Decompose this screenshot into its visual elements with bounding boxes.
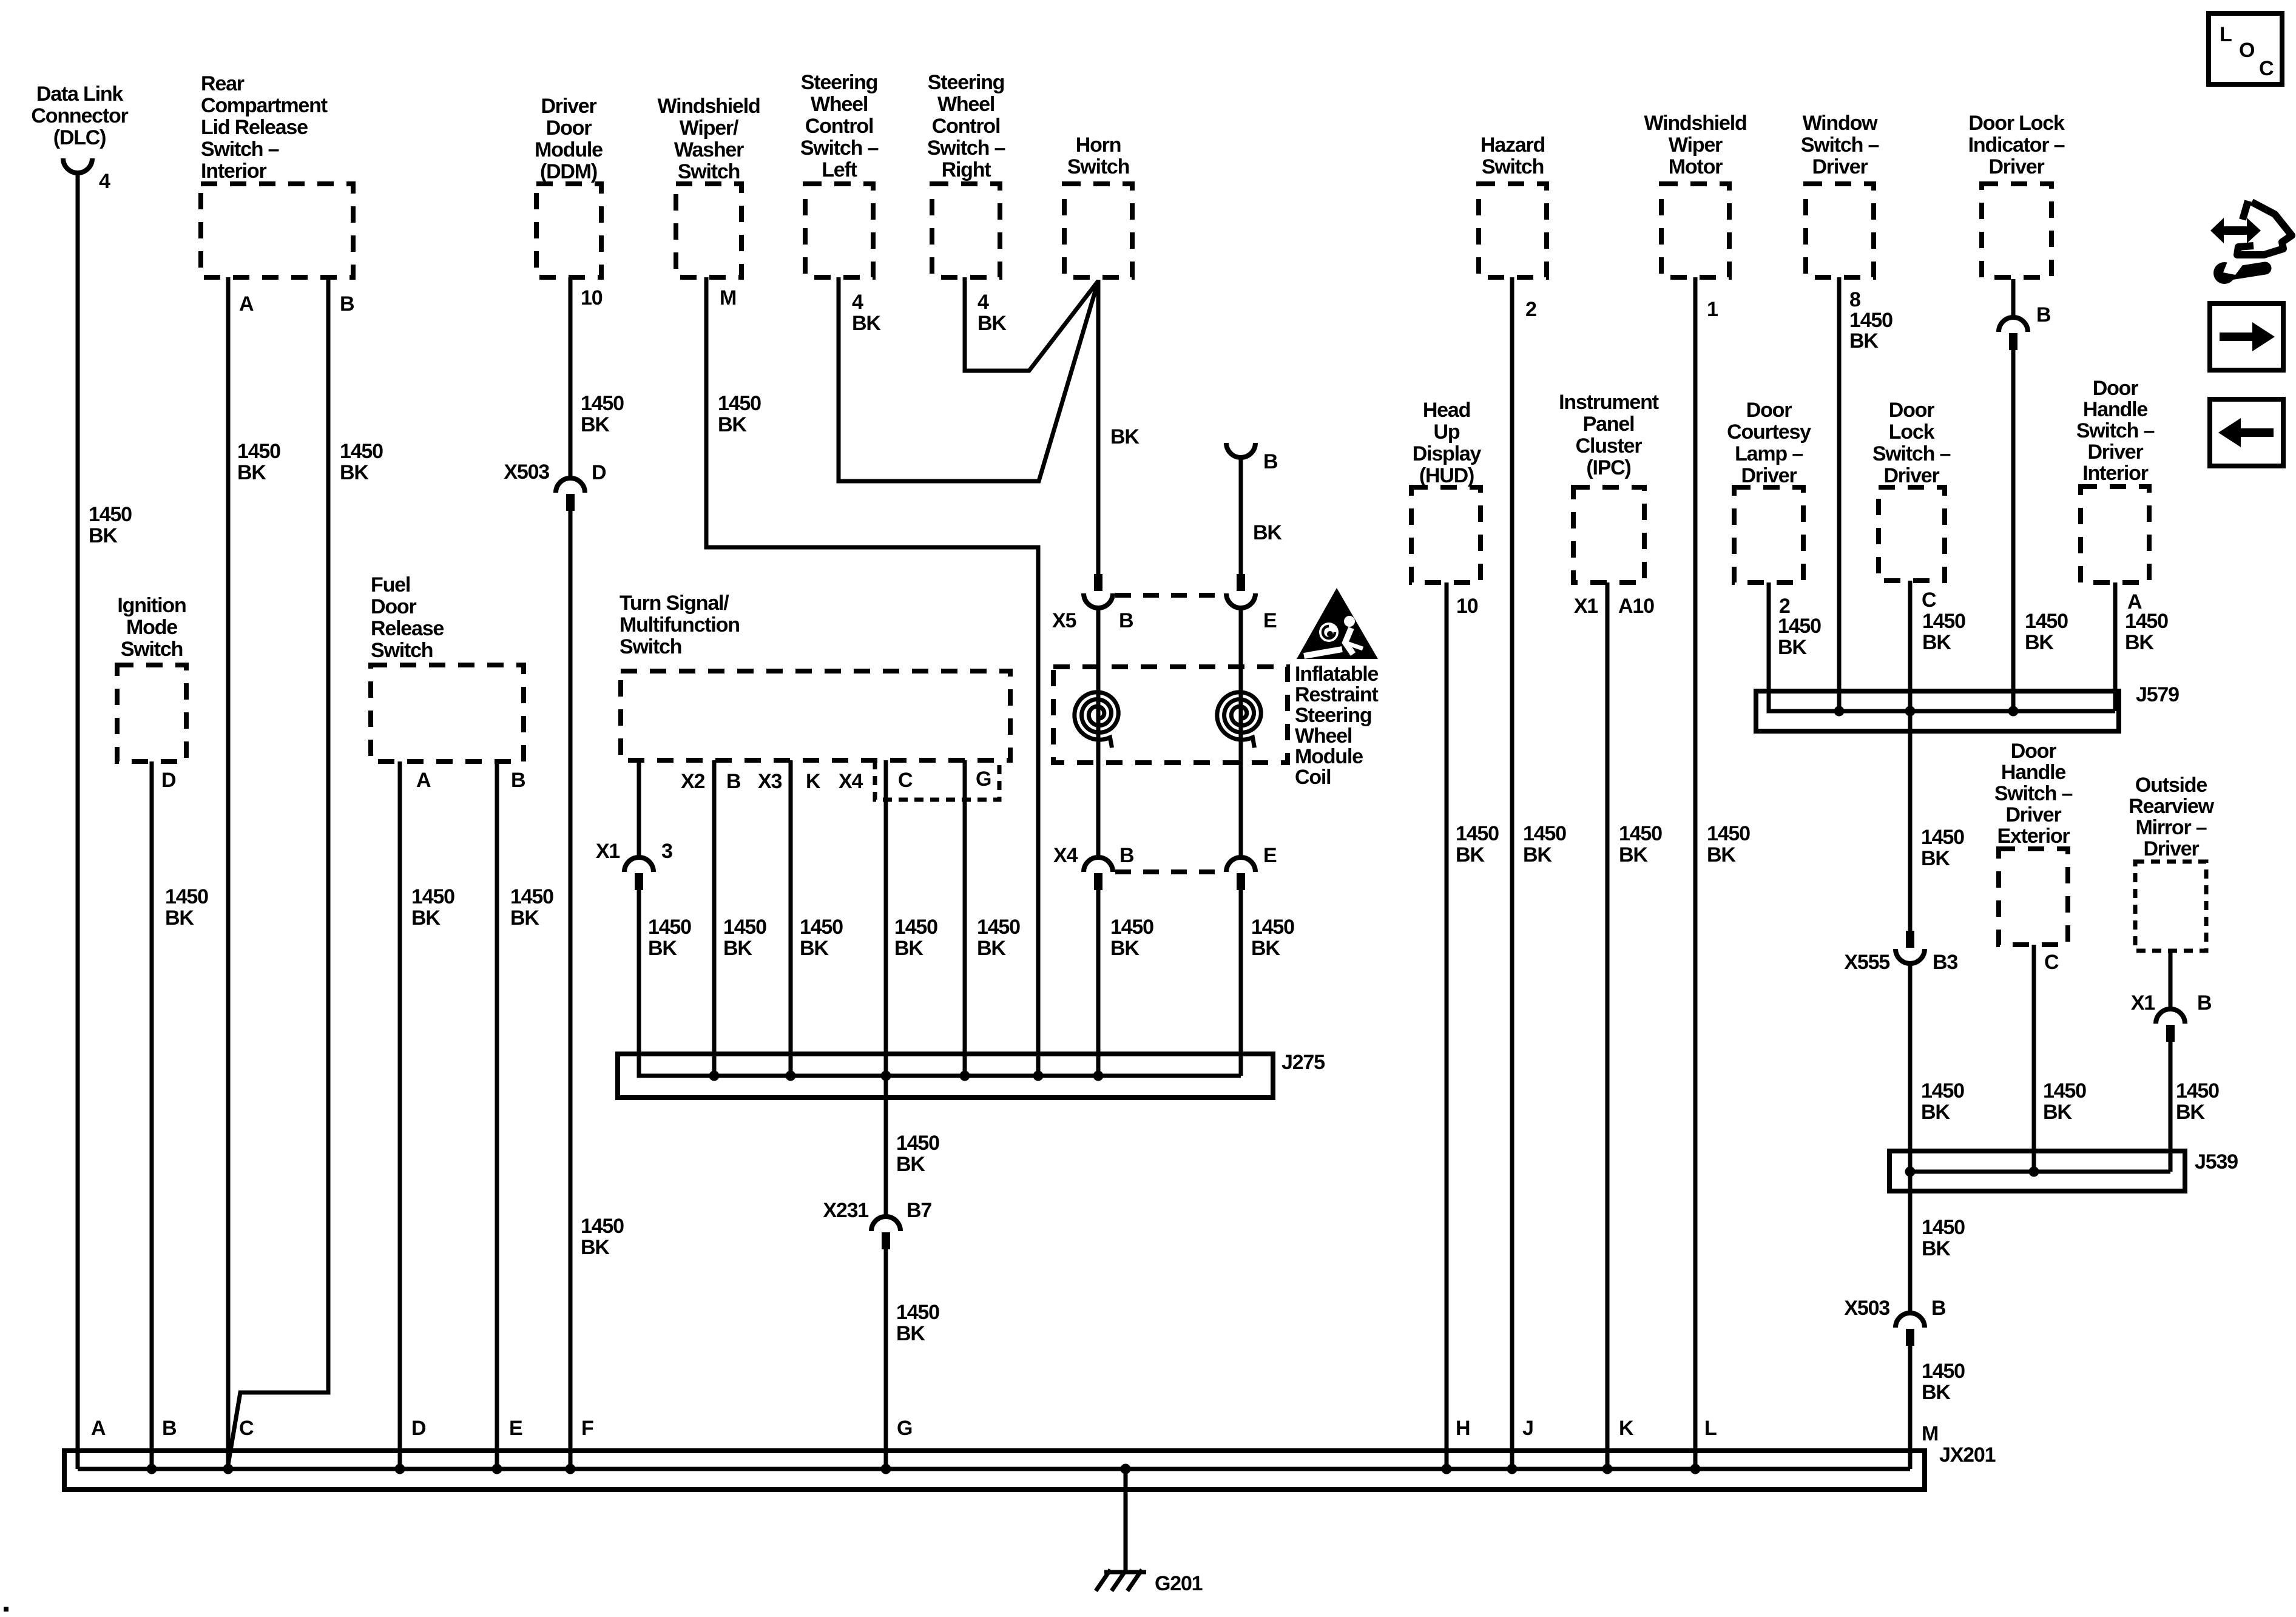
svg-text:J539: J539 [2195, 1150, 2238, 1173]
svg-text:IgnitionModeSwitch: IgnitionModeSwitch [117, 594, 186, 661]
wire Rear Compartment pin A to JX201-C [228, 277, 280, 1469]
node dots on J539 [1905, 1167, 2039, 1177]
component Door Lock Indicator - Driver [1968, 112, 2065, 326]
svg-text:H: H [1456, 1417, 1470, 1440]
component Door Courtesy Lamp - Driver [1727, 399, 1811, 618]
svg-text:O: O [2239, 39, 2255, 62]
component Turn Signal/Multifunction Switch [620, 592, 1010, 793]
junction bus JX201 [64, 1443, 1996, 1490]
svg-text:X1: X1 [596, 840, 620, 863]
svg-text:B: B [340, 292, 354, 316]
coil passenger side clockspring (spiral 2) [1217, 692, 1261, 748]
component Driver Door Module (DDM) [535, 95, 603, 309]
svg-text:D: D [592, 461, 606, 484]
svg-text:M: M [1922, 1422, 1938, 1445]
svg-text:10: 10 [581, 286, 603, 309]
connector X555-B3 (stub + cup) [1844, 931, 1957, 974]
svg-text:M: M [720, 286, 736, 309]
component Fuel Door Release Switch [371, 573, 525, 792]
svg-text:C: C [2259, 57, 2274, 80]
svg-text:D: D [411, 1417, 426, 1440]
connector X4-B inline below coil [1053, 844, 1134, 890]
page corner mark [4, 1607, 8, 1612]
wire X5-E through coil to X4-E [1239, 608, 1243, 857]
svg-text:B: B [1263, 450, 1278, 473]
svg-text:J275: J275 [1281, 1051, 1325, 1074]
svg-text:B: B [2036, 303, 2051, 326]
wire turn signal G to J275 [965, 760, 1020, 1076]
svg-text:B: B [162, 1417, 177, 1440]
wire X503-B to JX201-M [1910, 1346, 1965, 1469]
wire X5-B through coil to X4-B [1096, 608, 1101, 857]
svg-text:G: G [976, 768, 991, 791]
svg-text:B: B [726, 770, 741, 793]
connector X231-B7 inline on J275 output [823, 1199, 931, 1249]
svg-text:K: K [806, 770, 821, 793]
wire Outside Rearview Mirror X1-B to J539 [2170, 951, 2219, 1172]
junction bus J539 [1889, 1150, 2238, 1191]
svg-text:WindowSwitch –Driver: WindowSwitch –Driver [1801, 112, 1879, 178]
connector DLC terminal 4 (end arc) [63, 158, 92, 173]
connector Door Lock Indicator pin B inline [1999, 317, 2028, 350]
wire turn signal X4-C through J275 to X231 [886, 760, 939, 1217]
svg-text:X5: X5 [1052, 609, 1076, 632]
svg-text:A10: A10 [1618, 595, 1654, 618]
wire J539 to X503-B [1910, 1172, 1965, 1313]
component Head Up Display (HUD) [1411, 399, 1482, 618]
svg-text:J: J [1522, 1417, 1533, 1440]
wire X231-B7 to JX201-G [886, 1249, 939, 1469]
component Steering Wheel Control Switch - Left [800, 71, 882, 335]
svg-text:X4: X4 [1053, 844, 1078, 867]
wire Door Lock Switch pin C through J579 to X555 [1910, 581, 1965, 932]
svg-text:C: C [239, 1417, 254, 1440]
svg-text:K: K [1619, 1417, 1634, 1440]
wire Steering Wheel Control Switch Left pin 4 to horn node [839, 277, 1098, 481]
svg-text:X503: X503 [1844, 1297, 1889, 1320]
junction bus J579 [1756, 582, 2179, 731]
wire Wiper Motor pin 1 to JX201-L [1695, 277, 1750, 1469]
wire HUD pin 10 to JX201-H [1447, 582, 1499, 1469]
connector X1 pin 3 inline on turn signal wire [596, 840, 672, 890]
connector dashed link X4 row [1115, 869, 1224, 874]
component Door Handle Switch - Driver Interior [2076, 377, 2155, 613]
svg-text:B: B [1931, 1297, 1946, 1320]
component Windshield Wiper Motor [1644, 112, 1746, 321]
svg-text:B: B [511, 769, 525, 792]
svg-text:X1: X1 [2131, 991, 2155, 1014]
wire Ignition Mode Switch pin D to JX201-B [152, 761, 208, 1469]
wire Window Switch pin 8 to J579 [1837, 277, 1842, 711]
component Instrument Panel Cluster (IPC) [1559, 391, 1659, 618]
component Window Switch - Driver [1801, 112, 1893, 353]
connector X5-E (stub + cup) [1226, 574, 1277, 632]
component Windshield Wiper/Washer Switch [657, 95, 760, 309]
svg-text:2: 2 [1525, 298, 1536, 321]
component Steering Wheel Control Switch - Right [927, 71, 1007, 335]
wire Door Lock Indicator pin B to J579 [2013, 279, 2068, 711]
svg-text:X2: X2 [681, 770, 704, 793]
wire Door Courtesy Lamp pin 2 to J579 [1769, 582, 1821, 711]
svg-text:D: D [161, 769, 176, 792]
connector sub-box of turn signal switch [875, 760, 999, 800]
svg-text:10: 10 [1456, 595, 1478, 618]
svg-text:E: E [509, 1417, 522, 1440]
svg-text:3: 3 [661, 840, 672, 863]
svg-text:G: G [897, 1417, 912, 1440]
wire Horn Switch to X5-B [1098, 280, 1140, 574]
svg-text:1: 1 [1707, 298, 1718, 321]
svg-text:X503: X503 [504, 461, 549, 484]
svg-text:B: B [1119, 609, 1133, 632]
wire ground stem G201 [1124, 1469, 1128, 1572]
component Rear Compartment Lid Release Switch - Interior [201, 72, 354, 316]
svg-text:A: A [91, 1417, 106, 1440]
wire DLC pin 4 to JX201-A [78, 173, 132, 1469]
svg-text:L: L [2220, 23, 2232, 46]
svg-text:B: B [1119, 844, 1134, 867]
wire Door Handle Switch Interior pin A to J579 [2115, 582, 2168, 711]
wire Washer Switch pin M to J275 [706, 277, 1038, 1076]
wire Fuel Door pin B to JX201-E [497, 761, 553, 1469]
icon arrow left box [2210, 399, 2283, 466]
svg-text:C: C [1922, 589, 1936, 612]
connector X503-B inline on JX201-M wire [1844, 1297, 1946, 1346]
component Outside Rearview Mirror - Driver [2129, 774, 2214, 951]
svg-text:E: E [1263, 844, 1277, 867]
svg-text:BK: BK [1253, 521, 1282, 544]
svg-text:B3: B3 [1933, 951, 1957, 974]
svg-text:F: F [581, 1417, 593, 1440]
svg-text:J579: J579 [2136, 683, 2179, 706]
icon hand with double arrow and wrench [2210, 201, 2292, 284]
node dots on JX201 [147, 1464, 1701, 1474]
svg-text:JX201: JX201 [1939, 1443, 1996, 1467]
svg-text:C: C [2044, 951, 2059, 974]
svg-text:B7: B7 [907, 1199, 931, 1222]
component Door Lock Switch - Driver [1872, 399, 1951, 612]
junction bus J275 [618, 890, 1325, 1098]
svg-text:HazardSwitch: HazardSwitch [1481, 133, 1545, 178]
node dots on J579 [1834, 706, 2019, 717]
wire Rear Compartment pin B joining wire C [228, 277, 383, 1465]
warning triangle airbag icon [1297, 588, 1378, 659]
svg-text:X231: X231 [823, 1199, 868, 1222]
coil driver side clockspring (spiral 1) [1075, 692, 1118, 748]
connector dashed link X5 row [1115, 593, 1224, 598]
wire turn signal X3-K to J275 [791, 760, 843, 1076]
node dots on J275 [709, 1071, 1104, 1081]
svg-text:A: A [416, 769, 431, 792]
wire Door Handle Switch Exterior pin C to J539 [2034, 945, 2086, 1172]
component Ignition Mode Switch [117, 594, 186, 792]
wire X4-B to J275 [1098, 890, 1153, 1076]
wire Fuel Door pin A to JX201-D [400, 761, 454, 1469]
connector X503-D inline on DDM wire [504, 461, 606, 511]
svg-text:L: L [1704, 1417, 1717, 1440]
wire turn signal X2-B to J275 [714, 760, 766, 1076]
connector X5-B (stub + cup) [1052, 574, 1133, 632]
ground G201 [1096, 1570, 1203, 1595]
svg-text:G201: G201 [1155, 1572, 1203, 1595]
svg-text:X3: X3 [758, 770, 782, 793]
wire X555-B3 to J539 [1910, 964, 1964, 1172]
wire X4-E to J275 [1241, 890, 1294, 1076]
svg-text:BK: BK [1110, 425, 1140, 448]
component Door Handle Switch - Driver Exterior [1994, 740, 2073, 974]
wire steering wheel coil E lead from connector B [1241, 450, 1282, 574]
wire IPC X1-A10 to JX201-K [1607, 582, 1662, 1469]
component Data Link Connector (DLC) label [31, 83, 128, 193]
svg-text:E: E [1263, 609, 1277, 632]
svg-text:HornSwitch: HornSwitch [1067, 133, 1129, 178]
svg-text:C: C [898, 769, 913, 792]
svg-text:DriverDoorModule(DDM): DriverDoorModule(DDM) [535, 95, 603, 183]
svg-text:X555: X555 [1844, 951, 1889, 974]
svg-text:B: B [2197, 991, 2212, 1014]
component Horn Switch [1064, 133, 1132, 277]
connector X1-B inline on mirror wire [2131, 991, 2212, 1042]
wire Hazard Switch pin 2 to JX201-J [1512, 277, 1566, 1469]
connector E lead top terminal B (end arc) [1226, 443, 1255, 457]
component Inflatable Restraint Steering Wheel Module Coil box [1053, 663, 1379, 789]
svg-text:A: A [239, 292, 254, 316]
component Hazard Switch [1479, 133, 1547, 321]
connector X4-E inline below coil [1226, 844, 1277, 890]
wire turn signal X1 pin 3 to J275 [639, 760, 691, 1076]
icon LOC box [2209, 13, 2282, 84]
wire Steering Wheel Control Switch Right pin 4 to horn node [965, 277, 1098, 371]
wire DDM pin 10 to JX201-F via X503-D [570, 277, 624, 1469]
icon arrow right box [2210, 303, 2283, 370]
svg-text:X4: X4 [839, 770, 863, 793]
svg-text:X1: X1 [1574, 595, 1598, 618]
svg-text:4: 4 [99, 170, 110, 193]
